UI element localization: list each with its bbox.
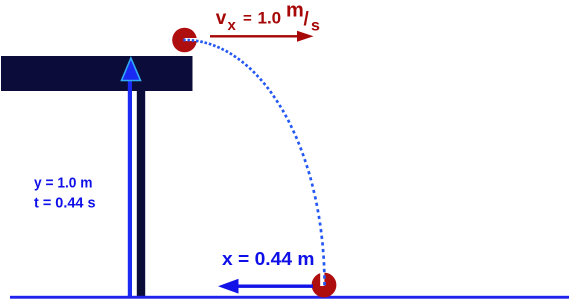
svg-text:1.0: 1.0 [258,8,282,27]
svg-text:x = 0.44 m: x = 0.44 m [222,249,315,269]
svg-text:/: / [304,9,310,30]
svg-text:v: v [216,8,227,29]
svg-text:=: = [243,10,252,27]
svg-text:m: m [286,0,304,22]
svg-text:t = 0.44 s: t = 0.44 s [34,195,96,212]
svg-text:x: x [228,17,237,34]
svg-text:y = 1.0 m: y = 1.0 m [34,175,93,192]
svg-text:s: s [311,18,320,35]
